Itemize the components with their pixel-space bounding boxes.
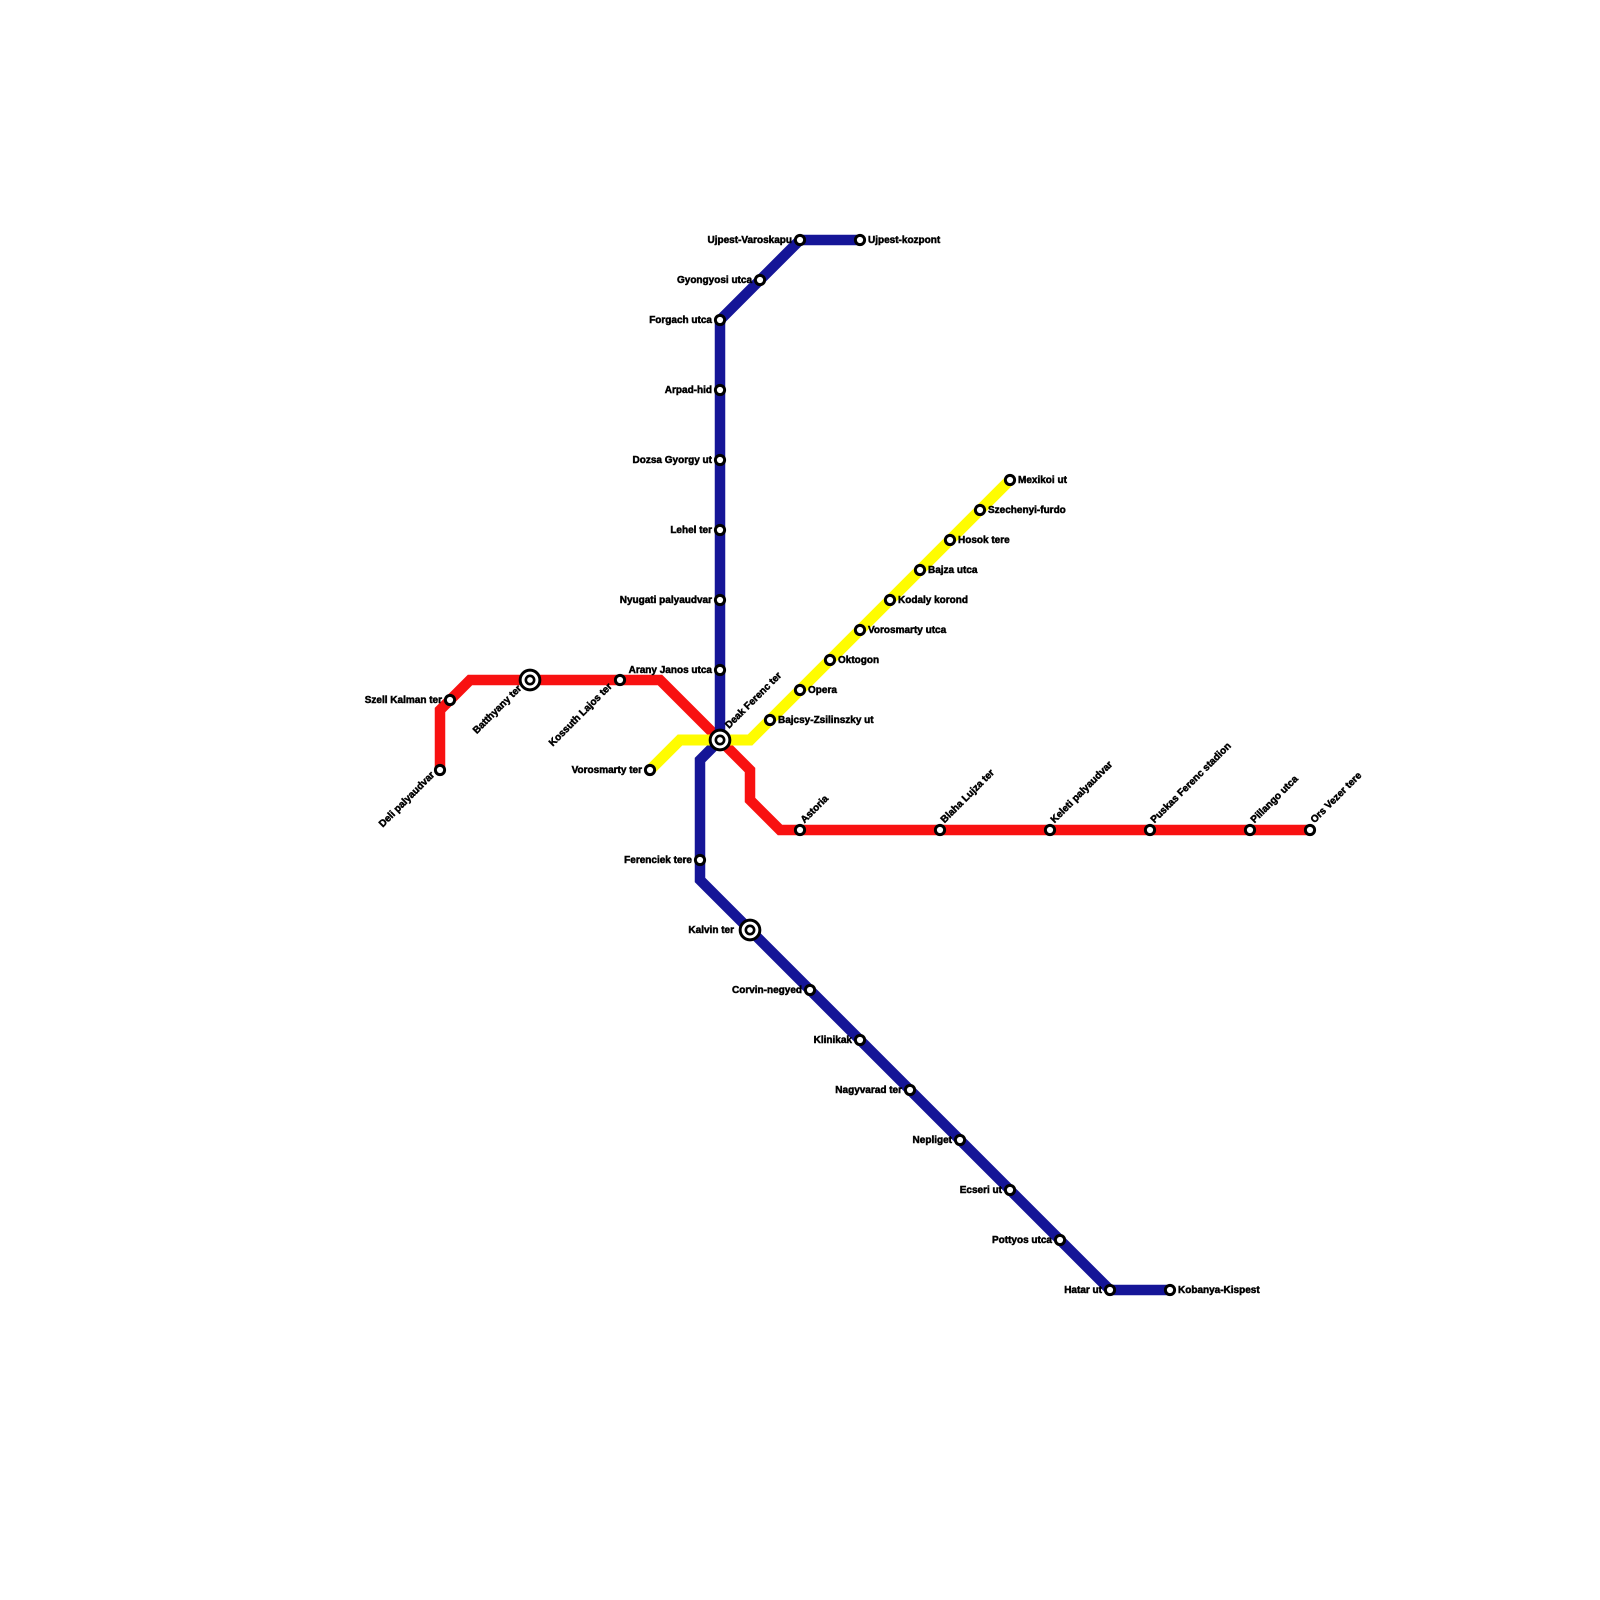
svg-text:Nyugati palyaudvar: Nyugati palyaudvar [620,595,712,606]
station Vorosmarty utca [855,625,864,634]
svg-text:Hatar ut: Hatar ut [1064,1285,1102,1296]
svg-text:Bajza utca: Bajza utca [928,565,978,576]
station Astoria [795,825,804,834]
svg-text:Nagyvarad ter: Nagyvarad ter [835,1085,902,1096]
station Ors Vezer tere [1305,825,1314,834]
station Nyugati palyaudvar [715,595,724,604]
station Forgach utca [715,315,724,324]
station Pottyos utca [1055,1235,1064,1244]
svg-text:Nepliget: Nepliget [913,1135,953,1146]
svg-text:Opera: Opera [808,685,837,696]
station Oktogon [825,655,834,664]
station Puskas Ferenc stadion [1145,825,1154,834]
station Opera [795,685,804,694]
station Dozsa Gyorgy ut [715,455,724,464]
station Ujpest-Varoskapu [795,235,804,244]
transfer Kalvin ter [740,920,760,940]
svg-text:Corvin-negyed: Corvin-negyed [732,985,802,996]
station Bajcsy-Zsilinszky ut [765,715,774,724]
station Klinikak [855,1035,864,1044]
station Hosok tere [945,535,954,544]
station Arany Janos utca [715,665,724,674]
transfer Deak Ferenc ter [710,730,730,750]
svg-text:Ecseri ut: Ecseri ut [960,1185,1003,1196]
station Blaha Lujza ter [935,825,944,834]
station Gyongyosi utca [755,275,764,284]
station Hatar ut [1105,1285,1114,1294]
svg-text:Ujpest-kozpont: Ujpest-kozpont [868,235,941,246]
svg-text:Ferenciek tere: Ferenciek tere [624,855,692,866]
station Vorosmarty ter [645,765,654,774]
station Nepliget [955,1135,964,1144]
station Ferenciek tere [695,855,704,864]
svg-text:Vorosmarty ter: Vorosmarty ter [572,765,643,776]
station Lehel ter [715,525,724,534]
svg-text:Forgach utca: Forgach utca [649,315,712,326]
station Keleti palyaudvar [1045,825,1054,834]
station Arpad-hid [715,385,724,394]
station Bajza utca [915,565,924,574]
station Corvin-negyed [805,985,814,994]
transfer Batthyany ter [520,670,540,690]
red line M2 [440,680,1310,830]
svg-text:Bajcsy-Zsilinszky ut: Bajcsy-Zsilinszky ut [778,715,874,726]
station Ecseri ut [1005,1185,1014,1194]
svg-text:Gyongyosi utca: Gyongyosi utca [677,275,752,286]
station Szell Kalman ter [445,695,454,704]
station Kossuth Lajos ter [615,675,624,684]
station Ujpest-kozpont [855,235,864,244]
station Kobanya-Kispest [1165,1285,1174,1294]
station Kodaly korond [885,595,894,604]
blue line M3 [700,240,1170,1290]
svg-text:Pottyos utca: Pottyos utca [992,1235,1052,1246]
svg-text:Szechenyi-furdo: Szechenyi-furdo [988,505,1066,516]
svg-text:Mexikoi ut: Mexikoi ut [1018,475,1068,486]
station Mexikoi ut [1005,475,1014,484]
station Nagyvarad ter [905,1085,914,1094]
station Szechenyi-furdo [975,505,984,514]
yellow line M1 [650,480,1010,770]
svg-text:Vorosmarty utca: Vorosmarty utca [868,625,947,636]
svg-text:Oktogon: Oktogon [838,655,879,666]
svg-text:Hosok tere: Hosok tere [958,535,1010,546]
svg-text:Ujpest-Varoskapu: Ujpest-Varoskapu [708,235,792,246]
svg-text:Klinikak: Klinikak [814,1035,853,1046]
svg-text:Kalvin ter: Kalvin ter [688,925,734,936]
svg-text:Dozsa Gyorgy ut: Dozsa Gyorgy ut [633,455,713,466]
station Pillango utca [1245,825,1254,834]
svg-text:Kodaly korond: Kodaly korond [898,595,968,606]
svg-text:Kobanya-Kispest: Kobanya-Kispest [1178,1285,1260,1296]
svg-text:Szell Kalman ter: Szell Kalman ter [365,695,442,706]
svg-text:Arany Janos utca: Arany Janos utca [629,665,713,676]
svg-text:Arpad-hid: Arpad-hid [665,385,712,396]
svg-text:Lehel ter: Lehel ter [670,525,712,536]
station Deli palyaudvar [435,765,444,774]
